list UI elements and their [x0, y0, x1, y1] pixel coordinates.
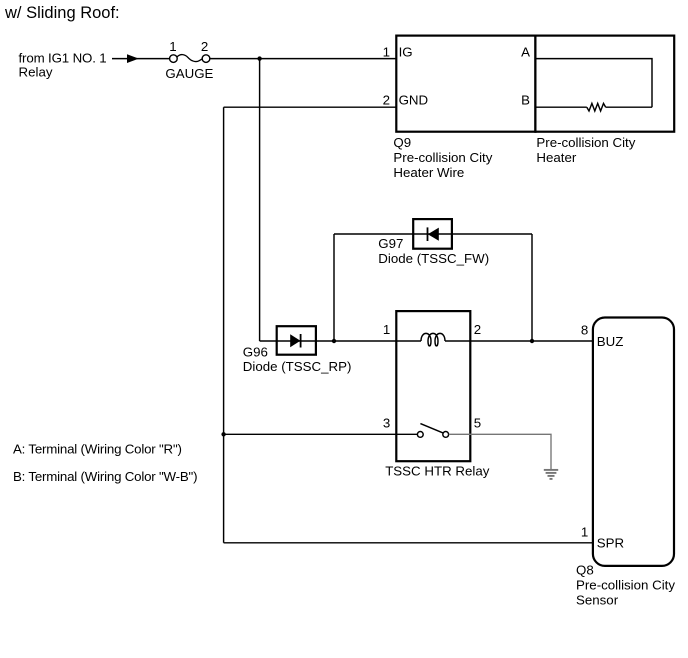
diode G96 box — [277, 326, 316, 355]
wire fuse to Q9 IG — [210, 58, 396, 60]
wire vertical branch down to diode row — [259, 59, 261, 341]
svg-text:Diode (TSSC_RP): Diode (TSSC_RP) — [243, 359, 352, 374]
relay coil — [421, 333, 445, 346]
heater internal wire top — [535, 59, 652, 108]
svg-text:GAUGE: GAUGE — [165, 66, 213, 81]
wire to relay pin 3 — [224, 433, 418, 435]
svg-text:Diode (TSSC_FW): Diode (TSSC_FW) — [378, 251, 489, 266]
svg-text:Pre-collision City: Pre-collision City — [393, 150, 492, 165]
junction dot G97 left — [332, 339, 336, 343]
svg-text:BUZ: BUZ — [597, 334, 624, 349]
wire main row relay to sensor BUZ — [445, 340, 593, 342]
wire from IG1 relay to fuse — [112, 58, 170, 60]
junction dot at relay pin3 branch — [221, 432, 225, 436]
wire G97 left vertical — [333, 234, 335, 341]
wire G97 right vertical — [531, 234, 533, 341]
svg-text:G96: G96 — [243, 344, 268, 359]
svg-text:2: 2 — [474, 322, 481, 337]
svg-text:Heater: Heater — [536, 150, 576, 165]
svg-text:1: 1 — [169, 39, 176, 54]
svg-text:3: 3 — [383, 416, 390, 431]
svg-text:B: B — [521, 93, 530, 108]
svg-text:B: Terminal (Wiring Color "W-B: B: Terminal (Wiring Color "W-B") — [13, 469, 197, 484]
diode G96 symbol (anode left) — [290, 334, 300, 348]
svg-text:from IG1 NO. 1: from IG1 NO. 1 — [19, 51, 107, 66]
svg-text:Q8: Q8 — [576, 562, 594, 577]
svg-text:Relay: Relay — [19, 65, 53, 80]
heater box (Pre-collision City Heater) — [535, 36, 674, 132]
svg-text:1: 1 — [383, 322, 390, 337]
connector Q9 box — [396, 36, 535, 132]
svg-text:SPR: SPR — [597, 536, 624, 551]
svg-text:IG: IG — [399, 44, 413, 59]
svg-text:Sensor: Sensor — [576, 592, 619, 607]
wire SPR horizontal — [224, 542, 593, 544]
junction dot G97 right — [530, 339, 534, 343]
svg-text:Q9: Q9 — [393, 135, 411, 150]
wire G97 row — [334, 233, 532, 235]
svg-text:2: 2 — [383, 93, 390, 108]
svg-text:5: 5 — [474, 416, 481, 431]
wire relay pin5 to ground (gray) — [449, 434, 551, 470]
svg-text:G97: G97 — [378, 236, 403, 251]
sensor Q8 box — [593, 318, 674, 566]
fuse GAUGE — [170, 55, 210, 63]
svg-text:1: 1 — [383, 44, 390, 59]
heater internal wire bottom right — [606, 106, 652, 108]
svg-text:Pre-collision City: Pre-collision City — [576, 578, 675, 593]
relay switch — [417, 424, 448, 438]
svg-text:8: 8 — [581, 322, 588, 337]
svg-text:1: 1 — [581, 525, 588, 540]
wire main row to relay coil — [260, 340, 421, 342]
heater internal wire bottom left — [535, 106, 586, 108]
resistor heater element — [587, 103, 606, 111]
wire Q9 GND to left vertical — [224, 106, 396, 108]
wire left vertical GND to SPR — [223, 107, 225, 543]
relay box TSSC HTR — [396, 311, 470, 461]
svg-text:GND: GND — [399, 93, 429, 108]
svg-text:TSSC HTR Relay: TSSC HTR Relay — [385, 464, 490, 479]
svg-text:2: 2 — [201, 39, 208, 54]
diode G97 box — [413, 219, 452, 249]
svg-text:Pre-collision City: Pre-collision City — [536, 135, 635, 150]
svg-text:Heater Wire: Heater Wire — [393, 165, 464, 180]
svg-text:A: Terminal (Wiring Color "R"): A: Terminal (Wiring Color "R") — [13, 442, 182, 457]
diode G97 symbol (cathode left) — [428, 227, 439, 241]
arrow (power feed direction) — [127, 54, 139, 63]
ground symbol — [544, 470, 558, 479]
junction dot at fuse branch — [257, 56, 261, 60]
svg-text:A: A — [521, 44, 530, 59]
svg-text:w/ Sliding Roof:: w/ Sliding Roof: — [4, 4, 120, 22]
